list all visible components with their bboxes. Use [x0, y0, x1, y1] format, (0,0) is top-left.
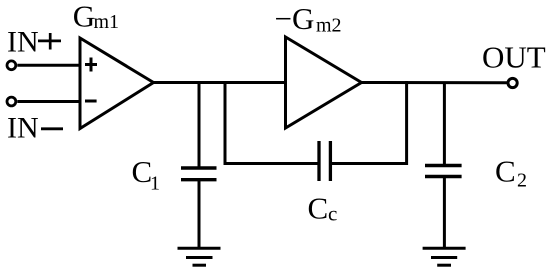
input terminal IN+: [7, 61, 16, 70]
capacitor C1: [181, 83, 217, 249]
op-amp U2 -Gm2 (second OTA stage): [286, 37, 362, 128]
Gm1 + input mark: [85, 58, 97, 72]
ground under C1: [178, 248, 221, 265]
wire IN- to Gm1 inverting input: [17, 100, 81, 103]
svg-text:1: 1: [150, 172, 160, 194]
svg-text:OUT: OUT: [482, 39, 546, 74]
label IN-: [7, 112, 63, 145]
wire IN+ to Gm1 noninverting input: [17, 64, 81, 67]
label C2: [495, 153, 527, 191]
wire: node A down-branch to Cc (left side of compensation loop): [225, 81, 319, 164]
svg-text:IN: IN: [7, 25, 39, 58]
op-amp U1 Gm1 (first OTA stage): [80, 38, 154, 129]
svg-text:c: c: [328, 202, 337, 226]
ground under C2: [423, 248, 466, 265]
svg-text:IN: IN: [7, 112, 39, 145]
Gm1 - input mark: [85, 100, 97, 103]
wire node A: Gm1 output to Gm2 input: [154, 81, 288, 84]
label -Gm2: [275, 1, 342, 37]
capacitor C2: [425, 83, 462, 249]
capacitor Cc (Miller compensation): [319, 141, 330, 181]
label Cc: [308, 191, 338, 226]
output terminal OUT: [508, 78, 517, 87]
label Gm1: [73, 0, 119, 33]
svg-text:−G: −G: [275, 1, 315, 36]
wire: Cc to output node (right side of compensation loop): [330, 81, 406, 164]
svg-text:C: C: [308, 191, 329, 226]
svg-text:m2: m2: [316, 15, 342, 37]
label C1: [132, 154, 161, 194]
svg-text:m1: m1: [94, 11, 120, 33]
wire: Gm2 output to OUT terminal: [362, 81, 508, 84]
svg-text:G: G: [73, 0, 95, 33]
label IN+: [7, 25, 61, 58]
svg-text:2: 2: [517, 170, 527, 192]
input terminal IN-: [7, 97, 16, 106]
svg-text:C: C: [495, 153, 516, 188]
